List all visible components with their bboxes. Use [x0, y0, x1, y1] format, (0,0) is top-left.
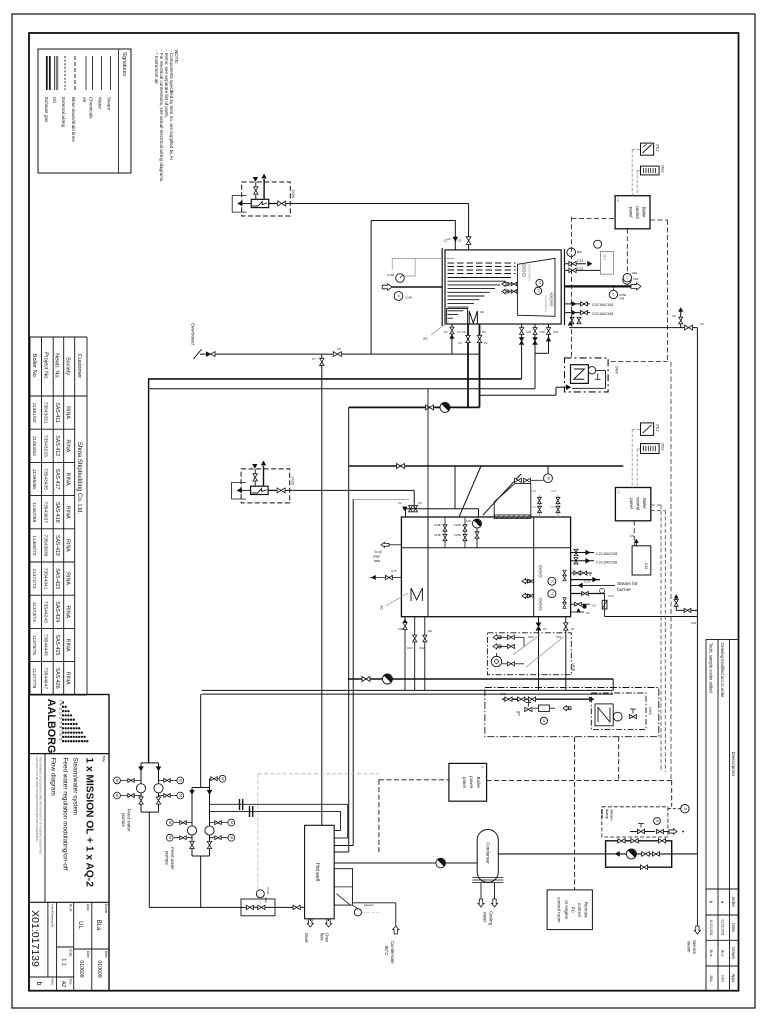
- svg-text:Oil: Oil: [52, 97, 57, 103]
- svg-text:RINA: RINA: [64, 406, 70, 419]
- svg-text:X01:017139: X01:017139: [29, 910, 41, 967]
- svg-text:b: b: [709, 901, 714, 904]
- svg-text:C16B: C16B: [454, 533, 461, 537]
- svg-text:Shina Shipbuilding Co. Ltd.: Shina Shipbuilding Co. Ltd.: [76, 442, 82, 515]
- svg-text:Feed water: Feed water: [170, 847, 175, 870]
- svg-text:THIS DRAWING AND DESIGNS ARE T: THIS DRAWING AND DESIGNS ARE THE PROPERT…: [39, 757, 43, 855]
- svg-text:Hot well: Hot well: [314, 863, 320, 881]
- svg-text:Scale: Scale: [68, 949, 72, 957]
- svg-text:C60: C60: [407, 646, 413, 650]
- svg-text:C2: C2: [398, 501, 402, 505]
- svg-text:C30: C30: [526, 330, 532, 334]
- svg-text:Tools, sample cooler added: Tools, sample cooler added: [709, 643, 714, 694]
- svg-text:b: b: [35, 982, 42, 986]
- svg-text:Feed water: Feed water: [127, 809, 132, 832]
- svg-text:SAS-411: SAS-411: [54, 402, 60, 422]
- svg-text:C6: C6: [418, 501, 422, 505]
- svg-text:admene: admene: [364, 903, 374, 907]
- svg-text:Chemicals: Chemicals: [89, 97, 94, 119]
- svg-text:I.2: I.2: [616, 199, 620, 203]
- svg-text:pumps: pumps: [121, 813, 126, 827]
- svg-text:C7: C7: [312, 357, 316, 361]
- svg-text:BW: BW: [577, 250, 582, 254]
- svg-text:Steam: Steam: [107, 97, 112, 110]
- svg-text:C150: C150: [619, 293, 627, 297]
- svg-text:Drawing modified acc.to order: Drawing modified acc.to order: [720, 643, 725, 698]
- svg-text:RINA: RINA: [64, 572, 70, 585]
- svg-text:C62: C62: [419, 646, 425, 650]
- svg-text:tank: tank: [374, 559, 380, 563]
- svg-text:VVW: VVW: [266, 887, 270, 894]
- svg-text:VVV: VVV: [264, 897, 268, 903]
- svg-text:C58: C58: [398, 627, 404, 631]
- svg-text:valve: valve: [600, 809, 605, 819]
- svg-text:SAS-424: SAS-424: [54, 601, 60, 622]
- svg-text:2412: 2412: [655, 424, 659, 432]
- svg-text:C2: C2: [447, 237, 451, 241]
- svg-text:VV: VV: [516, 710, 520, 714]
- svg-text:C1B: C1B: [500, 692, 506, 696]
- svg-text:C6: C6: [458, 239, 462, 243]
- svg-text:AND MUST NOT BE USED OR REPROD: AND MUST NOT BE USED OR REPRODUCED WITHO…: [35, 757, 39, 843]
- svg-text:1C: 1C: [380, 605, 385, 610]
- svg-text:C89: C89: [551, 489, 557, 493]
- svg-text:burner: burner: [617, 587, 631, 593]
- svg-text:C29: C29: [531, 505, 536, 509]
- svg-text:C1: C1: [571, 627, 575, 631]
- svg-text:Index: Index: [731, 897, 736, 907]
- svg-text:Condensate: Condensate: [390, 941, 395, 964]
- svg-text:power: power: [469, 776, 474, 788]
- svg-text:2403: 2403: [648, 707, 652, 715]
- svg-text:24E: 24E: [632, 271, 637, 275]
- svg-text:M2: M2: [428, 629, 432, 633]
- svg-text:Remote: Remote: [584, 902, 589, 919]
- svg-text:M: M: [168, 821, 172, 824]
- svg-text:2426: 2426: [291, 190, 295, 198]
- svg-text:Repl.: Repl.: [51, 979, 55, 986]
- svg-text:SAS-417: SAS-417: [54, 469, 60, 490]
- svg-text:Drawn: Drawn: [731, 947, 736, 960]
- svg-text:C5: C5: [672, 314, 676, 318]
- svg-text:PC: PC: [571, 907, 576, 914]
- svg-text:2409: 2409: [614, 366, 618, 374]
- svg-text:Boiler: Boiler: [642, 498, 647, 510]
- svg-text:M: M: [178, 794, 182, 797]
- svg-text:- * Instrument air: - * Instrument air: [154, 50, 159, 84]
- svg-text:PT: PT: [536, 289, 540, 293]
- svg-text:Project No.: Project No.: [43, 352, 49, 380]
- svg-text:C5: C5: [630, 534, 634, 538]
- svg-text:Title:: Title:: [102, 756, 106, 764]
- svg-text:Steam for: Steam for: [617, 581, 638, 587]
- svg-text:Date: Date: [104, 951, 108, 958]
- svg-text:control: control: [636, 497, 641, 510]
- svg-text:flow: flow: [320, 933, 325, 941]
- svg-text:M: M: [229, 836, 233, 839]
- svg-text:RINA: RINA: [64, 672, 70, 685]
- svg-text:RINA: RINA: [64, 539, 70, 552]
- svg-text:C9: C9: [480, 310, 484, 314]
- svg-text:73544041: 73544041: [43, 568, 49, 590]
- svg-text:C11: C11: [577, 266, 583, 270]
- svg-text:80°C: 80°C: [384, 946, 389, 955]
- svg-text:BLa: BLa: [720, 950, 724, 958]
- svg-text:P2: P2: [482, 330, 486, 334]
- svg-text:C98: C98: [619, 297, 625, 301]
- svg-text:Description: Description: [730, 752, 736, 776]
- svg-text:C16B: C16B: [454, 523, 461, 527]
- svg-text:C14B: C14B: [434, 523, 441, 527]
- svg-text:LI: LI: [612, 293, 616, 296]
- svg-text:LI: LI: [397, 295, 401, 298]
- svg-text:M: M: [178, 779, 182, 782]
- svg-text:A2: A2: [60, 981, 66, 987]
- svg-text:C34: C34: [466, 519, 472, 523]
- svg-text:C160: C160: [405, 296, 413, 300]
- svg-text:C63: C63: [528, 635, 534, 639]
- svg-text:M: M: [229, 821, 233, 824]
- svg-text:C14B: C14B: [434, 533, 441, 537]
- svg-text:73543435: 73543435: [43, 468, 49, 490]
- svg-text:Newb. No.: Newb. No.: [54, 353, 60, 380]
- svg-text:Date: Date: [86, 951, 90, 958]
- svg-text:2412: 2412: [655, 144, 659, 152]
- svg-text:Boiler: Boiler: [476, 777, 481, 789]
- svg-text:Condenser: Condenser: [485, 842, 490, 864]
- svg-text:control: control: [577, 903, 582, 917]
- svg-text:U: U: [481, 766, 485, 768]
- svg-text:Air: Air: [82, 97, 87, 103]
- svg-text:C1/C164/C168: C1/C164/C168: [596, 561, 617, 565]
- svg-text:1426: 1426: [290, 476, 294, 484]
- svg-text:C13: C13: [584, 580, 590, 584]
- svg-text:2602: 2602: [660, 443, 664, 451]
- svg-text:C36: C36: [540, 330, 546, 334]
- svg-text:BLa: BLa: [95, 920, 101, 931]
- svg-text:C1/C164/C168: C1/C164/C168: [592, 312, 613, 316]
- svg-text:C2: C2: [543, 627, 547, 631]
- svg-text:73544445: 73544445: [43, 634, 49, 656]
- svg-text:73543637: 73543637: [43, 501, 49, 523]
- svg-text:SAS-425: SAS-425: [54, 635, 60, 656]
- svg-text:73544243: 73544243: [43, 601, 49, 623]
- svg-text:73544647: 73544647: [43, 667, 49, 689]
- svg-text:Signatures:: Signatures:: [121, 52, 127, 77]
- svg-text:11371/72: 11371/72: [31, 569, 37, 589]
- svg-text:Overboard: Overboard: [191, 323, 196, 345]
- svg-text:panel: panel: [629, 207, 634, 218]
- svg-text:C11: C11: [586, 573, 592, 577]
- svg-text:73543839: 73543839: [43, 535, 49, 557]
- svg-text:Size: Size: [68, 979, 72, 985]
- svg-text:P2: P2: [586, 611, 590, 615]
- svg-text:1 x MISSION OL + 1 x AQ-2: 1 x MISSION OL + 1 x AQ-2: [84, 758, 95, 888]
- svg-text:M: M: [168, 836, 172, 839]
- svg-text:RINA: RINA: [64, 639, 70, 652]
- svg-text:External wiring: External wiring: [61, 97, 66, 128]
- svg-text:C3: C3: [700, 322, 704, 326]
- svg-text:11363/64: 11363/64: [31, 436, 37, 456]
- svg-text:BLa: BLa: [709, 950, 713, 958]
- svg-text:C6: C6: [462, 330, 466, 334]
- svg-text:11361/62: 11361/62: [31, 403, 37, 423]
- svg-text:SAS-419: SAS-419: [54, 535, 60, 556]
- svg-text:C2: C2: [444, 330, 448, 334]
- svg-text:010609: 010609: [78, 960, 84, 977]
- svg-text:W.o/t: W.o/t: [68, 904, 72, 911]
- svg-text:I.2: I.2: [617, 491, 621, 495]
- svg-text:Appr.: Appr.: [731, 974, 736, 984]
- svg-text:Drain: Drain: [304, 933, 309, 944]
- svg-text:Boiler No.: Boiler No.: [31, 354, 37, 379]
- svg-text:010609: 010609: [96, 960, 102, 977]
- svg-text:C88: C88: [531, 489, 537, 493]
- svg-text:M: M: [115, 794, 119, 797]
- svg-text:water: water: [483, 912, 488, 923]
- svg-text:Blow-down/drain lines: Blow-down/drain lines: [71, 97, 76, 142]
- svg-text:C96: C96: [633, 277, 639, 281]
- svg-text:P2: P2: [484, 341, 488, 345]
- svg-text:C1/C164/C168: C1/C164/C168: [592, 303, 613, 307]
- svg-text:1:1: 1:1: [60, 958, 66, 965]
- svg-text:Date: Date: [731, 923, 736, 932]
- svg-text:steam: steam: [687, 941, 692, 953]
- svg-text:C4: C4: [457, 330, 461, 334]
- svg-text:Service: Service: [692, 940, 697, 955]
- svg-text:control room: control room: [557, 897, 562, 923]
- svg-text:C61: C61: [556, 635, 562, 639]
- svg-text:C1/C2(M3/A3): C1/C2(M3/A3): [544, 295, 548, 312]
- svg-text:drain: drain: [373, 555, 380, 559]
- svg-text:11375/76: 11375/76: [31, 635, 37, 655]
- svg-text:C13: C13: [577, 259, 583, 263]
- svg-text:C4: C4: [458, 341, 462, 345]
- svg-text:panel: panel: [629, 498, 634, 509]
- svg-text:Flow diagram: Flow diagram: [49, 758, 56, 796]
- svg-text:UL: UL: [77, 921, 83, 929]
- svg-text:SAS-426: SAS-426: [54, 668, 60, 689]
- svg-text:JBA: JBA: [709, 975, 713, 982]
- svg-text:RINA: RINA: [64, 605, 70, 618]
- svg-text:Boiler: Boiler: [642, 207, 647, 219]
- svg-text:panel: panel: [462, 777, 467, 788]
- svg-text:Exhaust gas: Exhaust gas: [44, 97, 49, 123]
- svg-text:11.10.2001: 11.10.2001: [709, 920, 713, 936]
- svg-text:control: control: [635, 206, 640, 219]
- svg-text:73543031: 73543031: [43, 402, 49, 424]
- svg-text:RINA: RINA: [64, 473, 70, 486]
- svg-text:C14: C14: [608, 594, 614, 598]
- svg-text:LI: LI: [626, 276, 630, 279]
- svg-text:Steam/water system: Steam/water system: [71, 758, 78, 816]
- svg-text:M: M: [115, 779, 119, 782]
- svg-text:11367/68: 11367/68: [31, 502, 37, 522]
- svg-text:Arkiv/Drawing No.: Arkiv/Drawing No.: [51, 904, 55, 928]
- svg-text:Society: Society: [64, 357, 70, 376]
- svg-text:FT: FT: [538, 281, 542, 285]
- svg-text:11365/66: 11365/66: [31, 469, 37, 489]
- svg-text:C28: C28: [550, 505, 555, 509]
- svg-text:C1/C2(M3/A3): C1/C2(M3/A3): [528, 264, 532, 281]
- svg-text:1A1B: 1A1B: [571, 663, 575, 672]
- svg-text:To oil: To oil: [374, 550, 382, 554]
- svg-text:Water: Water: [98, 97, 103, 110]
- svg-text:C162: C162: [387, 273, 395, 277]
- svg-text:M: M: [546, 477, 550, 480]
- svg-text:2C: 2C: [423, 337, 428, 341]
- svg-text:01.09.2001: 01.09.2001: [720, 920, 724, 936]
- svg-text:pumps: pumps: [165, 851, 170, 865]
- svg-text:2602: 2602: [660, 165, 664, 173]
- svg-text:RINA: RINA: [64, 439, 70, 452]
- svg-text:Cooling: Cooling: [489, 911, 494, 926]
- svg-text:C3: C3: [592, 604, 596, 608]
- svg-text:M: M: [221, 777, 225, 780]
- svg-text:C1/C164/C168: C1/C164/C168: [596, 552, 617, 556]
- svg-text:Customer: Customer: [76, 354, 82, 378]
- svg-text:11369/70: 11369/70: [31, 535, 37, 555]
- svg-text:SAS-412: SAS-412: [54, 435, 60, 456]
- svg-text:SAS-423: SAS-423: [54, 568, 60, 589]
- svg-text:Drawn: Drawn: [104, 904, 108, 913]
- svg-text:V43: V43: [691, 621, 696, 625]
- svg-text:a: a: [720, 901, 725, 904]
- svg-text:RINA: RINA: [64, 506, 70, 519]
- svg-text:3E3: 3E3: [602, 254, 606, 260]
- svg-text:C33: C33: [644, 563, 648, 569]
- svg-text:in engine: in engine: [564, 900, 569, 919]
- svg-text:Appr.: Appr.: [86, 904, 90, 912]
- svg-text:73543233: 73543233: [43, 435, 49, 457]
- svg-text:HJK: HJK: [720, 975, 724, 983]
- svg-text:11373/74: 11373/74: [31, 602, 37, 622]
- svg-text:SAS-418: SAS-418: [54, 502, 60, 523]
- svg-text:AALBORG: AALBORG: [45, 699, 57, 754]
- svg-text:C8: C8: [337, 347, 341, 351]
- svg-text:11377/78: 11377/78: [31, 668, 37, 688]
- svg-text:Feed water regulation modulati: Feed water regulation modulating/on-off: [61, 758, 68, 871]
- svg-text:C34: C34: [553, 330, 559, 334]
- svg-text:C76: C76: [391, 569, 397, 573]
